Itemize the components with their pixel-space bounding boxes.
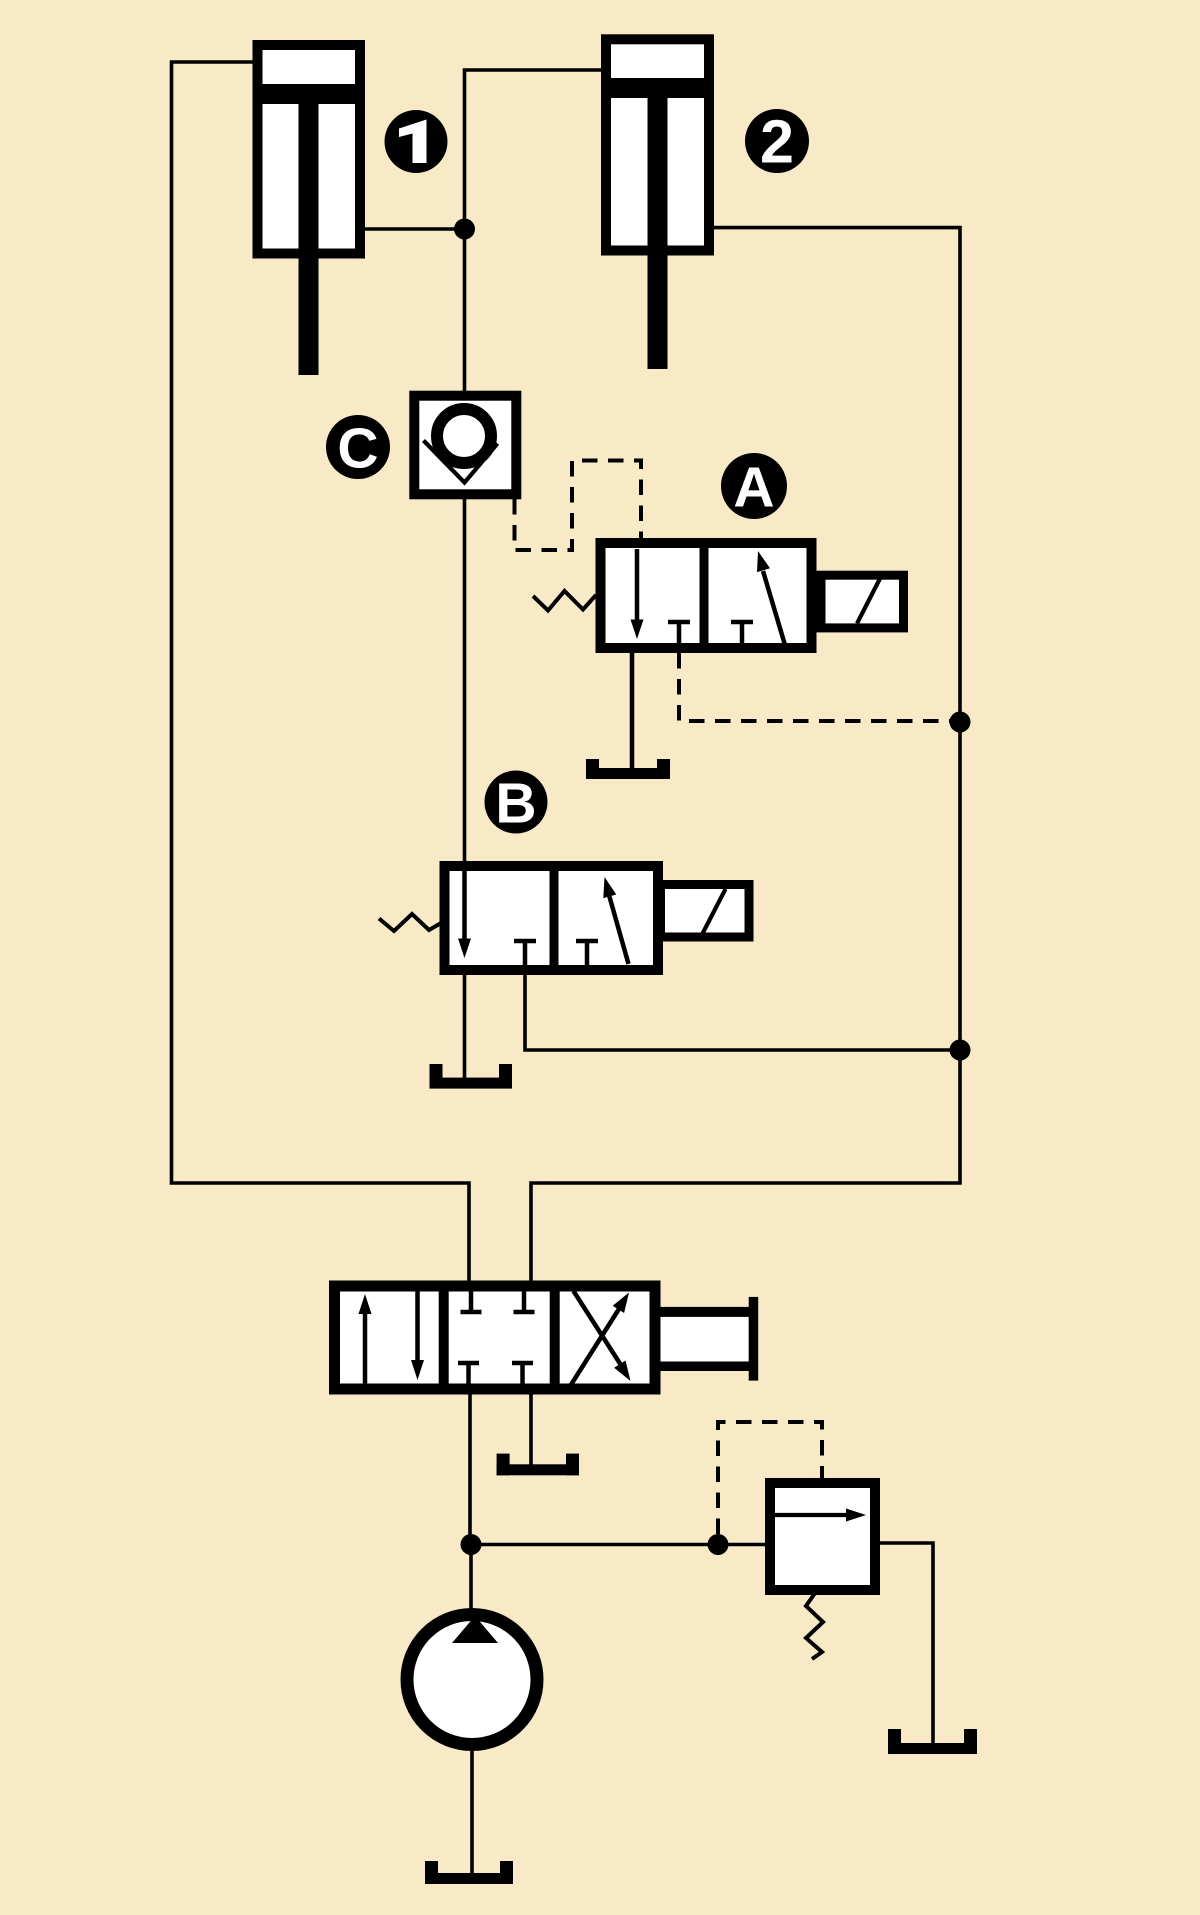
pilot dashed: valve A to right rail	[679, 653, 955, 721]
svg-text:B: B	[495, 772, 536, 836]
wire: 4/3 T-port to tank	[529, 1389, 533, 1468]
wire: pump node to relief valve	[470, 1543, 770, 1547]
directional valve 4/3 body	[335, 1286, 656, 1389]
valve B spring	[379, 914, 442, 931]
valve A body	[601, 543, 812, 648]
pilot dashed: check valve to valve A	[515, 461, 642, 551]
check valve seat	[424, 441, 498, 483]
valve A left cell down-arrow	[631, 549, 644, 639]
wire: cylinder2 right port to right rail down and left to valve P-right	[531, 228, 960, 1286]
valve B left cell blocked port T	[514, 941, 536, 973]
label 1	[385, 110, 448, 173]
wire: valve B through to tank	[463, 970, 467, 1080]
wire: valve A to tank	[630, 650, 635, 772]
pilot dashed: relief valve remote	[718, 1422, 822, 1534]
tank below valve A	[586, 759, 670, 779]
relief valve spring	[806, 1593, 823, 1659]
valve A right cell blocked port T	[731, 622, 753, 651]
wire: cylinder2 left port to node over check valve	[465, 70, 602, 392]
tank below 4/3 valve	[497, 1454, 579, 1476]
pump	[407, 1615, 537, 1745]
junction dot right rail upper	[950, 712, 971, 733]
tank relief outlet	[888, 1729, 977, 1754]
cylinder 1 body	[258, 45, 361, 375]
valve B body	[445, 866, 659, 970]
valve B right cell arrow	[603, 877, 628, 964]
4/3 lever actuator	[661, 1297, 759, 1381]
wire: pump node down to pump	[469, 1545, 473, 1616]
cylinder 2 body	[606, 39, 709, 369]
4/3 right cell crossed arrows	[571, 1291, 631, 1386]
node junction dot cyl1/cyl2	[454, 219, 475, 240]
valve B left cell through-line with arrow	[458, 866, 471, 958]
wire: cylinder1 left port to left rail down to valve P-left	[172, 62, 470, 1286]
wire: check valve to valve B	[463, 499, 467, 866]
valve B right cell blocked port T	[576, 941, 598, 973]
svg-text:2: 2	[760, 108, 794, 176]
4/3 left cell down-arrow	[411, 1289, 424, 1380]
tank below valve B	[430, 1064, 513, 1089]
junction dot pump node	[461, 1534, 482, 1555]
wire: 4/3 P-port down to pump node	[468, 1389, 472, 1545]
junction dot relief pilot node	[708, 1534, 729, 1555]
wire: cylinder1 right port	[365, 227, 465, 231]
wire: valve B port to right rail	[525, 970, 955, 1050]
svg-text:C: C	[337, 417, 378, 481]
valve A right cell arrow	[757, 551, 785, 645]
4/3 centre cell blocked ports	[458, 1291, 535, 1384]
check valve C box	[414, 396, 516, 495]
check valve ball	[437, 409, 491, 463]
relief valve body	[770, 1483, 875, 1590]
label C	[326, 415, 390, 481]
junction dot right rail lower	[950, 1040, 971, 1061]
4/3 left cell up-arrow	[359, 1294, 372, 1387]
valve A spring	[533, 591, 596, 611]
valve A left cell blocked port T	[668, 622, 690, 651]
tank pump suction	[425, 1861, 513, 1884]
label A	[721, 453, 787, 520]
label B	[485, 771, 548, 836]
wire: pump suction to tank	[470, 1747, 474, 1878]
label 2	[745, 108, 809, 176]
valve B pilot box	[661, 885, 750, 938]
valve A pilot box	[821, 575, 904, 628]
svg-text:A: A	[733, 456, 774, 520]
wire: relief valve outlet to tank	[878, 1543, 933, 1744]
